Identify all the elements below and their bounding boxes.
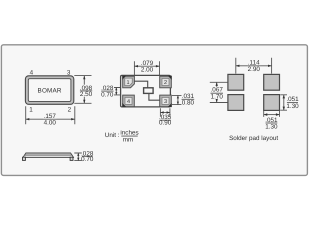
dimension .067/1.70 pad pitch vertical bbox=[210, 82, 228, 102]
wire pad1 to crystal bbox=[134, 81, 148, 87]
svg-text:0.80: 0.80 bbox=[182, 100, 195, 107]
dimension .028/0.70 vertical pad gap bbox=[101, 85, 120, 99]
dimension .114/2.90 pad pitch horizontal bbox=[236, 58, 272, 74]
dimension .028/0.70 side view height bbox=[74, 150, 94, 163]
package top view body bbox=[25, 76, 73, 105]
svg-text:0.70: 0.70 bbox=[81, 156, 94, 163]
svg-text:.051: .051 bbox=[286, 96, 299, 103]
svg-text:3: 3 bbox=[164, 99, 167, 105]
svg-text:1: 1 bbox=[29, 107, 33, 114]
dimension .035/0.90 pad width bbox=[159, 108, 172, 126]
pad 2 (top-right) bbox=[160, 76, 172, 88]
side view right foot bbox=[70, 157, 73, 160]
dimension .079/2.00 pad gap bbox=[134, 59, 159, 75]
svg-text:1.30: 1.30 bbox=[265, 123, 278, 130]
svg-text:.067: .067 bbox=[211, 87, 224, 94]
dimension .051/1.30 pad height bbox=[280, 95, 299, 110]
svg-text:Unit :: Unit : bbox=[105, 132, 120, 139]
dimension .157/4.00 width of top view bbox=[26, 106, 75, 126]
pad 1 (top-left, chamfered) bbox=[122, 76, 134, 88]
svg-text:2.50: 2.50 bbox=[80, 91, 93, 98]
package bottom view outline bbox=[121, 75, 171, 107]
dimension .051/1.30 pad width bbox=[264, 111, 280, 130]
svg-text:Solder pad layout: Solder pad layout bbox=[229, 135, 278, 142]
svg-text:4.00: 4.00 bbox=[44, 119, 57, 126]
svg-text:4: 4 bbox=[30, 70, 34, 77]
svg-text:0.90: 0.90 bbox=[159, 120, 172, 127]
svg-text:1: 1 bbox=[126, 80, 129, 86]
side view left foot bbox=[23, 157, 26, 160]
side view body bbox=[23, 153, 73, 157]
svg-text:BOMAR: BOMAR bbox=[38, 88, 62, 95]
pad 4 (bottom-left) bbox=[122, 95, 134, 107]
unit note bbox=[105, 130, 139, 144]
svg-text:1.30: 1.30 bbox=[286, 103, 299, 110]
border frame bbox=[1, 45, 307, 176]
pad 3 (bottom-right) bbox=[160, 95, 172, 107]
svg-text:2: 2 bbox=[164, 80, 167, 86]
crystal element symbol bbox=[144, 88, 154, 94]
svg-text:1.70: 1.70 bbox=[211, 94, 224, 101]
svg-text:2: 2 bbox=[68, 107, 72, 114]
svg-text:3: 3 bbox=[67, 70, 71, 77]
svg-text:2.90: 2.90 bbox=[248, 66, 261, 73]
svg-text:2.00: 2.00 bbox=[141, 67, 154, 74]
svg-text:mm: mm bbox=[123, 136, 134, 143]
dimension .098/2.50 height of top view bbox=[74, 76, 93, 104]
wire crystal to pad3 bbox=[149, 94, 160, 101]
dimension .031/0.80 pad height bbox=[172, 93, 195, 107]
solder pad top-left bbox=[228, 74, 244, 90]
solder pad bottom-left bbox=[228, 95, 244, 111]
solder pad bottom-right bbox=[264, 95, 280, 111]
solder pad top-right bbox=[264, 74, 280, 90]
svg-text:4: 4 bbox=[127, 99, 130, 105]
svg-text:0.70: 0.70 bbox=[101, 91, 114, 98]
